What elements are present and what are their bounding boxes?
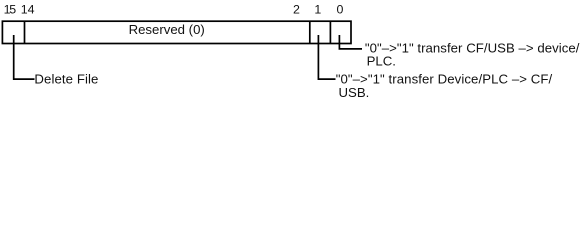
svg-text:USB.: USB. <box>339 85 370 100</box>
svg-text:15: 15 <box>4 2 17 16</box>
svg-text:Reserved (0): Reserved (0) <box>129 22 205 37</box>
svg-text:14: 14 <box>21 2 35 16</box>
svg-text:"0"–>"1" transfer CF/USB –> de: "0"–>"1" transfer CF/USB –> device/ <box>365 40 580 55</box>
leader bit1 <box>318 35 335 79</box>
leader bit15 to Delete File <box>14 35 35 79</box>
leader bit0 <box>339 35 362 49</box>
divider Reserved/bit1 <box>309 21 311 43</box>
divider bit1/bit0 <box>329 21 331 43</box>
svg-text:Delete File: Delete File <box>34 71 98 86</box>
divider bit15/Reserved <box>24 21 26 43</box>
svg-text:2: 2 <box>293 2 300 16</box>
register box <box>2 21 351 43</box>
svg-text:1: 1 <box>314 2 321 16</box>
svg-text:0: 0 <box>336 2 343 16</box>
svg-text:PLC.: PLC. <box>367 54 396 69</box>
